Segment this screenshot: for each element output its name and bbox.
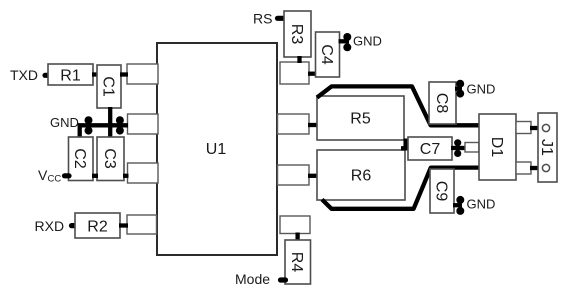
wire net R6 bottom to D1 (thick polyline) [322, 168, 479, 209]
resistor R5 [317, 96, 404, 140]
ground at C9 [456, 196, 495, 215]
svg-text:GND: GND [467, 82, 496, 97]
svg-text:R6: R6 [351, 168, 372, 185]
wire GND bus [78, 123, 128, 127]
ground at C4 [343, 33, 382, 51]
wire D1 to J1 top [530, 126, 539, 130]
svg-text:GND: GND [353, 34, 382, 49]
svg-text:R4: R4 [288, 252, 305, 273]
svg-text:RS: RS [253, 11, 272, 27]
capacitor C3 [97, 137, 124, 181]
wire C1 to C3 vertical [108, 107, 112, 138]
svg-text:D1: D1 [488, 137, 505, 158]
wire C1 to U1 pin [120, 72, 128, 76]
wire C9 to GND [453, 203, 462, 207]
wire D1 to J1 bottom [530, 166, 539, 170]
pin box U1 left pin 3 [128, 163, 159, 183]
svg-text:V: V [38, 167, 48, 183]
pin box U1 right pin 4 [280, 216, 310, 234]
svg-text:C2: C2 [71, 148, 88, 169]
wire net R5 top to D1 (thick polyline) [317, 86, 479, 125]
pin box U1 right pin 2 [278, 114, 310, 134]
svg-text:R2: R2 [87, 219, 108, 236]
wire U1 pin to R4 [295, 233, 299, 242]
wire C2 to C3 [92, 174, 98, 178]
pin box D1 left [465, 143, 479, 153]
wire C4 to GND [339, 39, 350, 43]
wire C3 to U1 pin [123, 174, 129, 178]
wire R2 to U1 pin [119, 223, 128, 227]
IC U1 [157, 43, 277, 255]
capacitor C7 [408, 137, 452, 160]
wire C8 to GND [455, 87, 462, 91]
svg-text:C8: C8 [433, 93, 450, 114]
connector J1 [538, 113, 557, 182]
node VCC [38, 167, 61, 185]
resistor R4 [285, 240, 311, 284]
svg-text:CC: CC [48, 174, 62, 185]
pin box U1 right pin 1 [280, 62, 309, 84]
wire U1 pin to R5 [308, 123, 318, 127]
junction dots on GND bus [85, 116, 93, 124]
wire U1 pin to R6 [308, 174, 318, 178]
svg-text:R5: R5 [350, 111, 371, 128]
wire R1 to C1 [92, 72, 98, 76]
capacitor C8 [429, 82, 456, 124]
pin box D1 right bottom [516, 162, 531, 174]
resistor R1 [48, 64, 93, 85]
capacitor C2 [69, 137, 94, 181]
svg-text:Mode: Mode [235, 271, 270, 287]
resistor R6 [317, 150, 405, 200]
pin box U1 left pin 1 [127, 64, 158, 84]
wire Mode to R4 [281, 277, 286, 282]
capacitor C1 [97, 65, 121, 108]
svg-text:U1: U1 [206, 141, 227, 158]
wire C7 to D1 pin [451, 146, 466, 150]
svg-text:RXD: RXD [35, 218, 65, 234]
svg-text:C7: C7 [420, 141, 441, 158]
resistor R2 [75, 213, 120, 238]
ground at C8 [456, 80, 495, 98]
wire TXD to R1 [45, 73, 49, 78]
svg-text:GND: GND [50, 115, 79, 130]
svg-text:R3: R3 [288, 24, 305, 45]
resistor R3 [284, 11, 311, 57]
wire U1 pin to C4 [308, 72, 317, 76]
svg-text:C9: C9 [433, 181, 450, 202]
svg-text:GND: GND [467, 197, 496, 212]
svg-text:TXD: TXD [10, 67, 38, 83]
capacitor C4 [316, 32, 340, 77]
wire junction R5/R6 to C7 [403, 139, 407, 151]
pin box U1 right pin 3 [278, 165, 310, 185]
pin box U1 left pin 4 [127, 215, 157, 234]
diode D1 [479, 114, 516, 180]
svg-text:C3: C3 [101, 148, 118, 169]
pin box D1 right top [516, 122, 531, 134]
junction dots at C7 output [454, 139, 461, 146]
svg-text:R1: R1 [60, 68, 81, 85]
svg-text:C4: C4 [318, 44, 335, 65]
wire VCC to C2 [65, 173, 70, 178]
capacitor C9 [430, 169, 454, 213]
svg-text:C1: C1 [100, 76, 117, 97]
wire RXD to R2 [72, 223, 77, 228]
wire R3 to U1 pin [297, 56, 301, 63]
wire RS to R3 [278, 16, 285, 21]
pin box U1 left pin 2 [128, 114, 159, 134]
wire GND drop to C2 [78, 124, 82, 139]
svg-text:J1: J1 [538, 139, 555, 156]
